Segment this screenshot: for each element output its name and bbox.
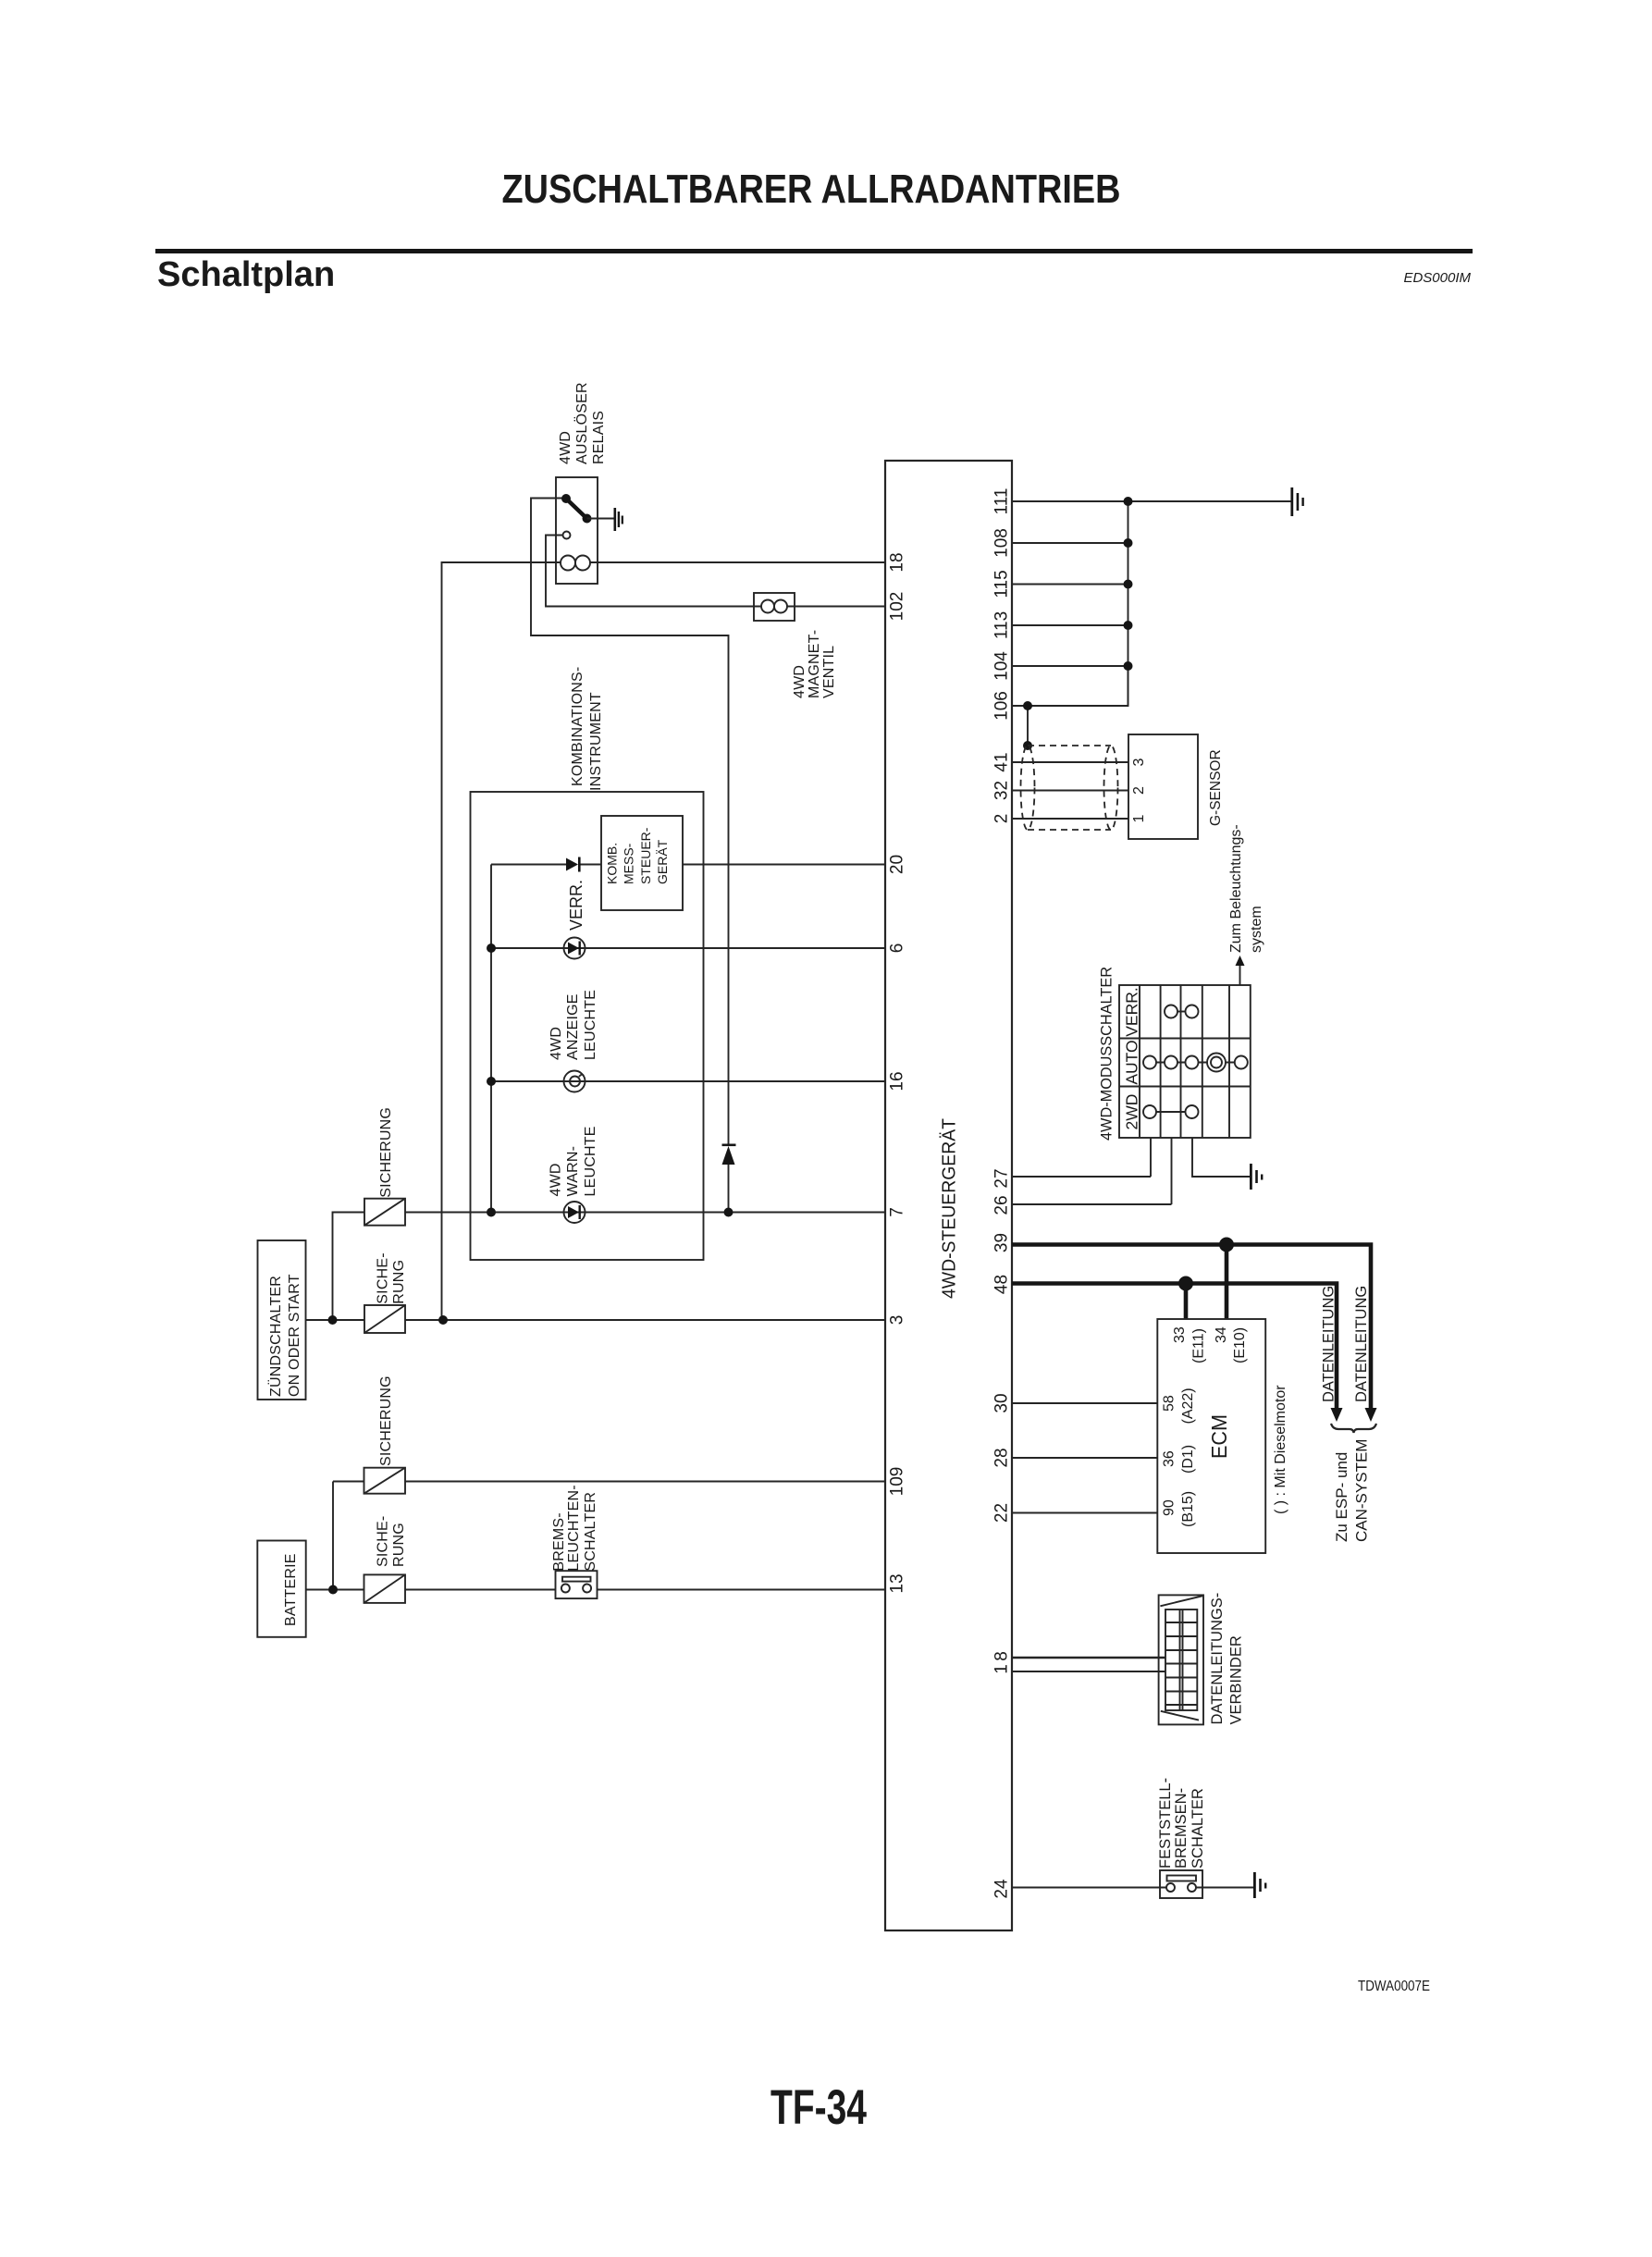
svg-text:4WD-MODUSSCHALTER: 4WD-MODUSSCHALTER [1098, 967, 1116, 1141]
svg-text:ECM: ECM [1207, 1414, 1231, 1459]
svg-text:108: 108 [992, 528, 1012, 558]
svg-text:BREMSEN-: BREMSEN- [1173, 1788, 1190, 1868]
svg-text:113: 113 [992, 611, 1012, 639]
svg-text:(A22): (A22) [1180, 1387, 1196, 1424]
svg-text:FESTSTELL-: FESTSTELL- [1157, 1778, 1174, 1868]
svg-text:1: 1 [992, 1664, 1012, 1674]
svg-text:DATENLEITUNG: DATENLEITUNG [1321, 1286, 1338, 1402]
svg-text:(B15): (B15) [1180, 1491, 1196, 1527]
svg-text:111: 111 [992, 488, 1012, 515]
svg-text:VENTIL: VENTIL [821, 646, 837, 698]
svg-text:LEUCHTE: LEUCHTE [583, 1126, 598, 1196]
svg-text:(E10): (E10) [1232, 1327, 1248, 1363]
svg-text:RUNG: RUNG [391, 1260, 407, 1304]
svg-text:4WD: 4WD [549, 1027, 564, 1060]
svg-text:DATENLEITUNGS-: DATENLEITUNGS- [1209, 1593, 1226, 1725]
svg-text:Schaltplan: Schaltplan [157, 255, 335, 294]
svg-text:( ) : Mit Dieselmotor: ( ) : Mit Dieselmotor [1273, 1385, 1288, 1514]
svg-text:4WD: 4WD [558, 431, 573, 464]
svg-text:AUSLÖSER: AUSLÖSER [573, 382, 590, 464]
svg-text:3: 3 [888, 1315, 907, 1326]
svg-text:36: 36 [1162, 1450, 1177, 1467]
svg-text:6: 6 [888, 943, 907, 954]
svg-text:20: 20 [888, 855, 907, 874]
svg-text:RUNG: RUNG [391, 1523, 407, 1567]
svg-text:CAN-SYSTEM: CAN-SYSTEM [1353, 1439, 1371, 1542]
svg-text:ANZEIGE: ANZEIGE [565, 993, 581, 1060]
svg-text:41: 41 [992, 752, 1012, 771]
svg-text:33: 33 [1172, 1326, 1188, 1343]
svg-text:GERÄT: GERÄT [655, 839, 670, 884]
svg-text:2: 2 [992, 814, 1012, 824]
svg-text:115: 115 [992, 570, 1012, 598]
svg-text:AUTO: AUTO [1123, 1040, 1141, 1084]
svg-text:DATENLEITUNG: DATENLEITUNG [1353, 1286, 1370, 1402]
svg-text:30: 30 [992, 1393, 1012, 1412]
svg-text:MAGNET-: MAGNET- [807, 630, 822, 698]
svg-text:Zu ESP- und: Zu ESP- und [1333, 1452, 1350, 1542]
svg-text:3: 3 [1131, 758, 1147, 766]
svg-text:8: 8 [992, 1651, 1012, 1661]
svg-text:MESS-: MESS- [622, 843, 636, 884]
svg-text:system: system [1249, 906, 1264, 953]
svg-text:16: 16 [888, 1071, 907, 1091]
svg-text:(D1): (D1) [1180, 1445, 1196, 1474]
svg-text:90: 90 [1162, 1499, 1177, 1516]
svg-text:102: 102 [888, 592, 907, 622]
svg-text:RELAIS: RELAIS [591, 411, 607, 464]
svg-text:4WD: 4WD [549, 1163, 564, 1196]
svg-text:28: 28 [992, 1448, 1012, 1467]
svg-text:27: 27 [992, 1168, 1012, 1188]
svg-text:LEUCHTE: LEUCHTE [583, 990, 598, 1060]
svg-text:18: 18 [888, 552, 907, 572]
svg-text:109: 109 [888, 1467, 907, 1497]
svg-text:7: 7 [888, 1207, 907, 1217]
svg-text:26: 26 [992, 1195, 1012, 1215]
svg-text:BATTERIE: BATTERIE [283, 1553, 299, 1626]
svg-text:22: 22 [992, 1503, 1012, 1523]
svg-text:VERR.: VERR. [1123, 987, 1141, 1036]
svg-text:VERBINDER: VERBINDER [1228, 1635, 1245, 1724]
svg-text:SICHERUNG: SICHERUNG [378, 1375, 394, 1466]
svg-text:2: 2 [1131, 786, 1147, 795]
svg-text:SICHE-: SICHE- [376, 1516, 391, 1567]
svg-text:KOMB.: KOMB. [605, 843, 620, 884]
svg-text:SCHALTER: SCHALTER [1190, 1788, 1206, 1868]
svg-text:13: 13 [888, 1573, 907, 1593]
svg-text:SCHALTER: SCHALTER [583, 1492, 598, 1572]
svg-text:106: 106 [992, 691, 1012, 721]
svg-text:VERR.: VERR. [567, 880, 586, 931]
svg-text:1: 1 [1131, 814, 1147, 822]
svg-text:ZUSCHALTBARER ALLRADANTRIEB: ZUSCHALTBARER ALLRADANTRIEB [502, 166, 1121, 212]
svg-text:KOMBINATIONS-: KOMBINATIONS- [570, 667, 586, 786]
svg-text:32: 32 [992, 781, 1012, 800]
svg-text:39: 39 [992, 1233, 1012, 1252]
svg-text:BREMS-: BREMS- [551, 1512, 567, 1571]
svg-text:48: 48 [992, 1275, 1012, 1294]
svg-text:SICHERUNG: SICHERUNG [378, 1107, 394, 1198]
svg-text:SICHE-: SICHE- [376, 1252, 391, 1303]
svg-text:2WD: 2WD [1123, 1094, 1141, 1130]
svg-text:WARN-: WARN- [565, 1146, 581, 1197]
svg-text:ZÜNDSCHALTER: ZÜNDSCHALTER [267, 1276, 284, 1397]
svg-text:STEUER-: STEUER- [638, 827, 653, 884]
svg-text:INSTRUMENT: INSTRUMENT [588, 692, 604, 791]
svg-text:4WD-STEUERGERÄT: 4WD-STEUERGERÄT [940, 1118, 960, 1299]
svg-text:EDS000IM: EDS000IM [1403, 270, 1471, 286]
svg-text:ON ODER START: ON ODER START [287, 1274, 302, 1397]
svg-text:24: 24 [992, 1879, 1012, 1899]
svg-text:34: 34 [1214, 1326, 1229, 1343]
svg-text:TF-34: TF-34 [771, 2080, 867, 2135]
svg-text:4WD: 4WD [792, 665, 808, 698]
svg-text:104: 104 [992, 651, 1012, 681]
svg-text:Zum Beleuchtungs-: Zum Beleuchtungs- [1228, 824, 1244, 953]
svg-text:58: 58 [1162, 1395, 1177, 1412]
svg-text:(E11): (E11) [1191, 1328, 1207, 1363]
svg-text:G-SENSOR: G-SENSOR [1208, 749, 1224, 826]
svg-text:LEUCHTEN-: LEUCHTEN- [566, 1485, 582, 1571]
svg-text:TDWA0007E: TDWA0007E [1358, 1979, 1430, 1994]
